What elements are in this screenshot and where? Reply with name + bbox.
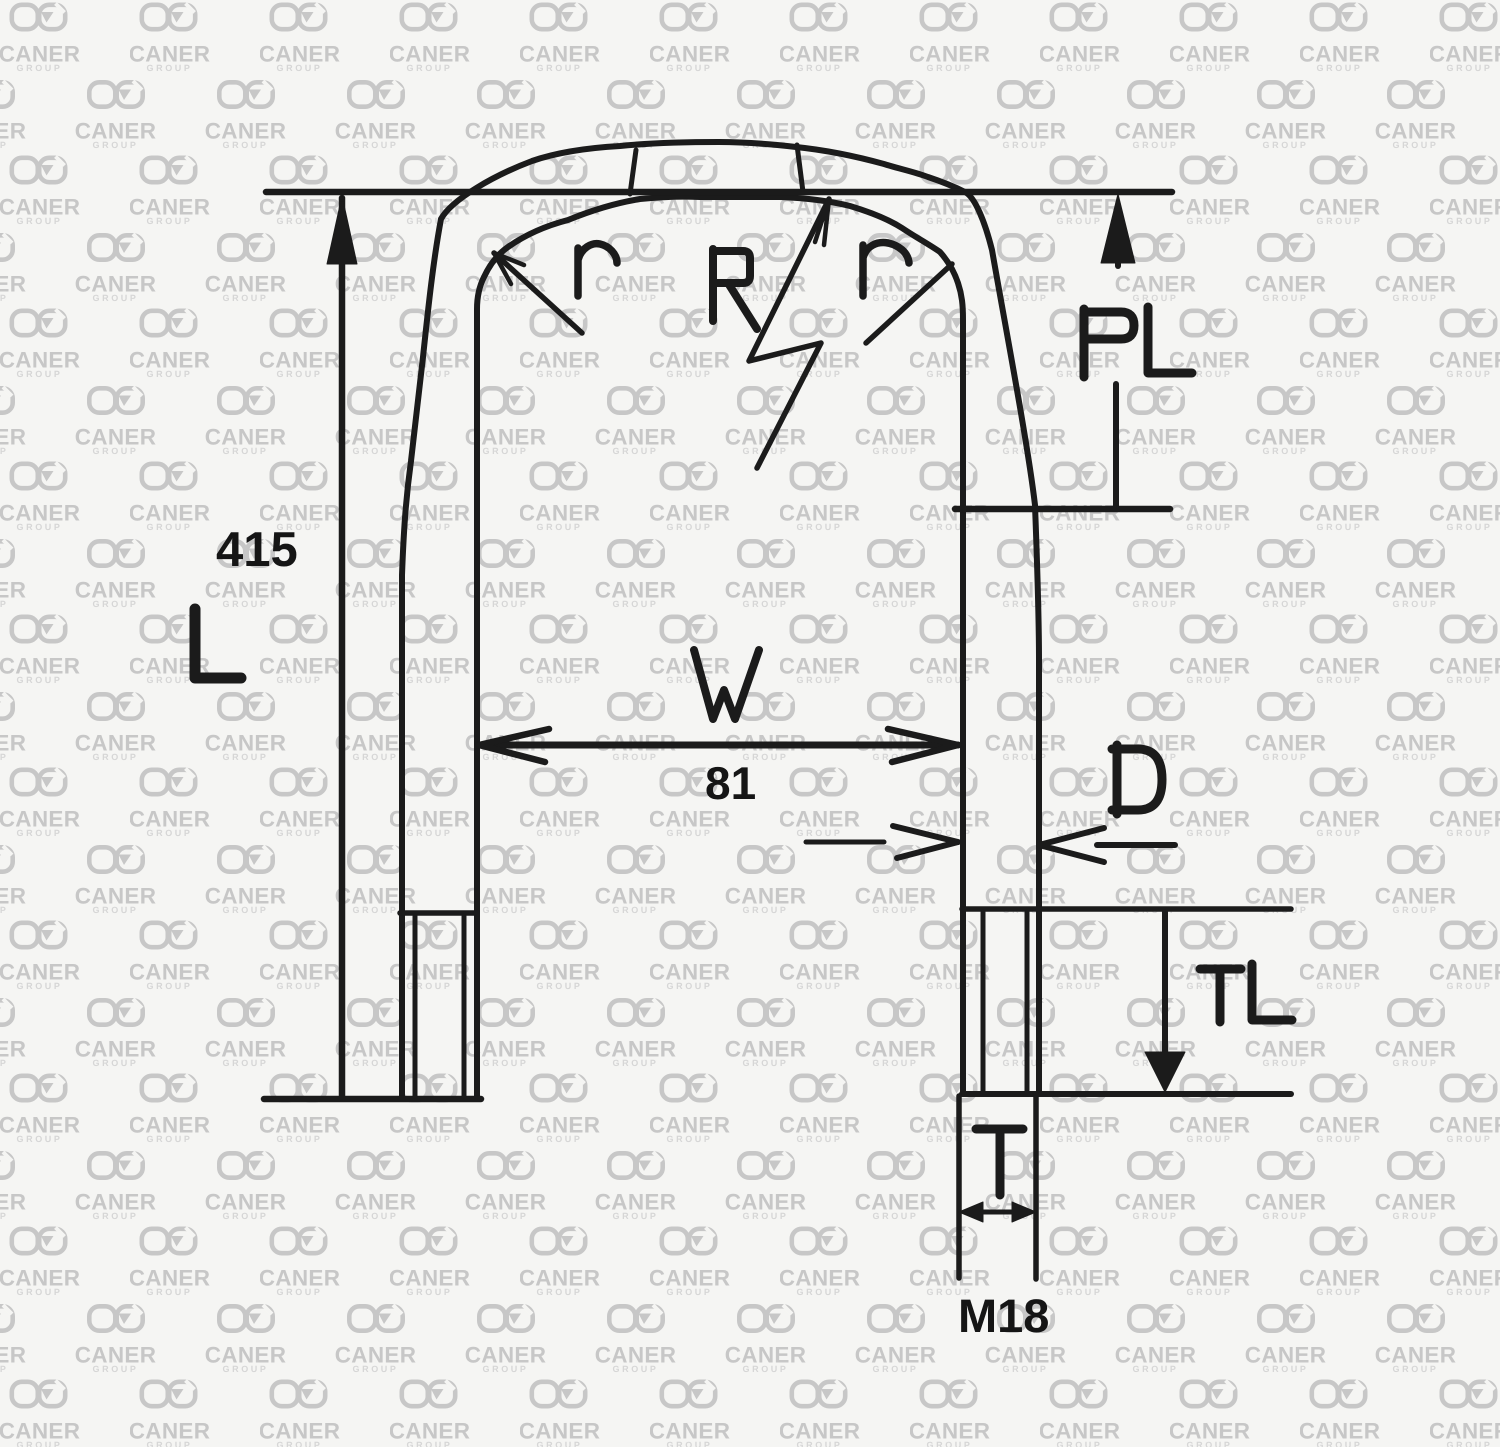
svg-text:81: 81: [705, 757, 756, 809]
svg-text:415: 415: [216, 523, 298, 577]
svg-text:M18: M18: [958, 1289, 1049, 1342]
